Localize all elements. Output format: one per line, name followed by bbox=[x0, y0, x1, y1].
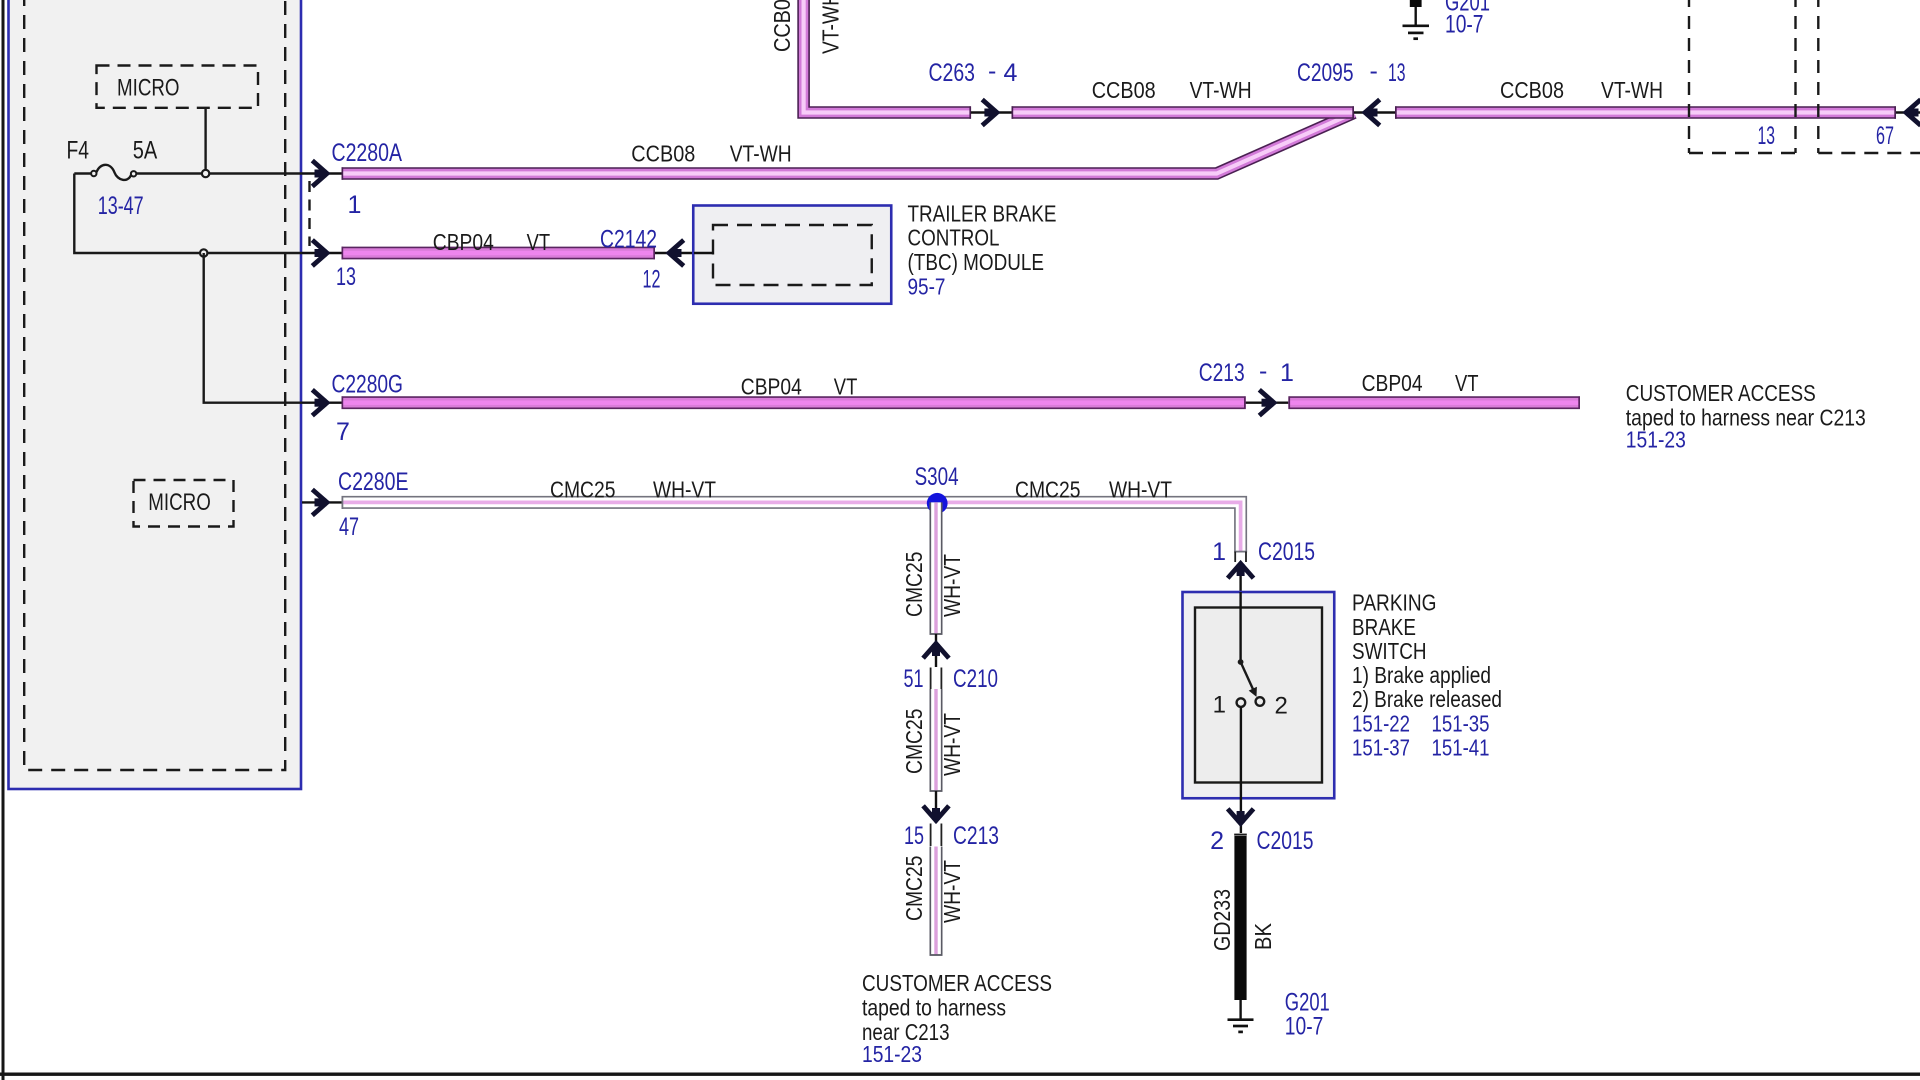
wire CCB08 VT-WH top vertical with corner to C263 bbox=[804, 0, 972, 119]
svg-text:BK: BK bbox=[1250, 922, 1276, 950]
label 51 / C210 bbox=[904, 665, 999, 693]
svg-text:CMC25: CMC25 bbox=[901, 856, 927, 922]
svg-text:S304: S304 bbox=[915, 463, 959, 491]
connector arrow C213 pin 1 bbox=[1259, 390, 1274, 416]
svg-text:-: - bbox=[1370, 57, 1378, 85]
svg-text:CUSTOMER ACCESS: CUSTOMER ACCESS bbox=[862, 970, 1052, 996]
connector arrow C2095 pin 13 bbox=[1365, 100, 1380, 126]
svg-text:(TBC) MODULE: (TBC) MODULE bbox=[908, 249, 1045, 275]
label pin 12 bbox=[643, 266, 661, 294]
wire lead at C2095 bbox=[1354, 111, 1395, 113]
connector arrow C2015 pin 2 (down) bbox=[1228, 809, 1254, 824]
PARKING BRAKE SWITCH inner box bbox=[1195, 608, 1322, 783]
svg-text:151-22: 151-22 bbox=[1352, 711, 1410, 737]
MICRO label box 2 bbox=[134, 480, 234, 527]
svg-text:51: 51 bbox=[904, 665, 924, 693]
TBC inner dashed boundary bbox=[713, 225, 872, 285]
CUSTOMER ACCESS note (right) bbox=[1626, 380, 1866, 453]
svg-text:151-23: 151-23 bbox=[1626, 427, 1686, 453]
wire lead at right edge bbox=[1896, 111, 1920, 113]
svg-text:95-7: 95-7 bbox=[908, 274, 946, 300]
wire lead through C213 arrow bbox=[935, 791, 937, 823]
label C2280G bbox=[332, 371, 404, 399]
label VT (row2) bbox=[527, 229, 551, 255]
svg-text:CMC25: CMC25 bbox=[550, 477, 616, 503]
connector arrow C2015 pin 1 (up) bbox=[1228, 564, 1254, 579]
svg-text:WH-VT: WH-VT bbox=[653, 477, 716, 503]
switch blade with arrowhead bbox=[1241, 662, 1257, 697]
BCM module box (grey, blue border) bbox=[9, 0, 302, 789]
connector arrow C2280G pin 7 bbox=[312, 390, 327, 416]
svg-text:C213: C213 bbox=[1199, 359, 1245, 387]
svg-text:7: 7 bbox=[336, 418, 350, 446]
connector arrow C2280A pin 13 bbox=[312, 240, 327, 266]
label C2095 - 13 bbox=[1297, 57, 1406, 87]
wire C2280A lead bbox=[302, 172, 342, 174]
label C2280A bbox=[332, 139, 403, 167]
switch terminal 2 bbox=[1256, 697, 1265, 706]
svg-text:C2015: C2015 bbox=[1258, 538, 1315, 566]
svg-text:10-7: 10-7 bbox=[1285, 1013, 1324, 1041]
label C263 - 4 bbox=[929, 57, 1018, 87]
connector arrow at right edge bbox=[1906, 100, 1920, 126]
wire lead inside TBC module bbox=[694, 252, 714, 254]
svg-text:MICRO: MICRO bbox=[117, 75, 180, 102]
label CBP04 (row3 left) bbox=[741, 373, 802, 399]
svg-text:13: 13 bbox=[1388, 59, 1406, 87]
svg-text:VT-WH: VT-WH bbox=[818, 0, 844, 54]
label WH-VT (rotated, segment C) bbox=[939, 860, 965, 923]
label G201 10-7 (top) bbox=[1445, 0, 1490, 39]
switch terminal 1 bbox=[1237, 698, 1246, 707]
ground G201 (top) bbox=[1403, 26, 1430, 39]
wire: MICRO1 to junction on wire1 bbox=[204, 108, 206, 174]
svg-text:5A: 5A bbox=[133, 137, 158, 165]
CUSTOMER ACCESS note (bottom) bbox=[862, 970, 1052, 1067]
label CMC25 (rotated, segment C) bbox=[901, 856, 927, 922]
svg-text:BRAKE: BRAKE bbox=[1352, 614, 1416, 640]
svg-text:F4: F4 bbox=[67, 137, 90, 165]
connector arrow C210 pin 51 (up) bbox=[923, 644, 949, 659]
connector arrow C263 pin 4 bbox=[982, 100, 997, 126]
svg-text:WH-VT: WH-VT bbox=[939, 554, 965, 617]
wire lead at C263 bbox=[971, 111, 1012, 113]
label VT-WH (mid) bbox=[1190, 77, 1252, 103]
svg-text:C2280G: C2280G bbox=[332, 371, 404, 399]
svg-text:C2095: C2095 bbox=[1297, 59, 1354, 87]
label 2 / C2015 bbox=[1210, 827, 1313, 855]
svg-text:WH-VT: WH-VT bbox=[939, 713, 965, 776]
switch pivot bbox=[1238, 659, 1244, 665]
svg-text:C2142: C2142 bbox=[600, 226, 657, 254]
label WH-VT (row4 left) bbox=[653, 477, 716, 503]
BCM inner dashed boundary bbox=[24, 0, 285, 770]
svg-text:151-37: 151-37 bbox=[1352, 735, 1410, 761]
label CCB08 (rotated, top) bbox=[769, 0, 795, 52]
label CCB08 (mid) bbox=[1092, 77, 1156, 103]
node: junction on wire1 bbox=[202, 170, 209, 177]
wire from terminal 1 down through C2015 arrow bbox=[1240, 707, 1242, 833]
wire CMC25 WH-VT row4 with corner down to C2015 bbox=[342, 496, 1248, 553]
svg-text:13: 13 bbox=[336, 263, 356, 291]
splice S304 bbox=[927, 493, 948, 514]
svg-text:1: 1 bbox=[1213, 692, 1226, 719]
svg-text:C2280A: C2280A bbox=[332, 139, 403, 167]
label VT-WH (rotated, top) bbox=[818, 0, 844, 54]
MICRO label box 1 bbox=[97, 66, 259, 108]
svg-text:151-23: 151-23 bbox=[862, 1041, 922, 1067]
svg-text:VT: VT bbox=[527, 229, 551, 255]
svg-text:2: 2 bbox=[1210, 827, 1224, 855]
svg-text:13-47: 13-47 bbox=[98, 192, 144, 220]
label VT (row3 left) bbox=[834, 373, 858, 399]
label G201 10-7 (bottom) bbox=[1285, 989, 1330, 1041]
wire CBP04 VT row3 left segment bbox=[342, 396, 1246, 409]
svg-text:C210: C210 bbox=[953, 665, 998, 693]
label C2280E bbox=[338, 468, 409, 496]
label CCB08 (right) bbox=[1500, 77, 1564, 103]
label C213 - 1 bbox=[1199, 357, 1294, 387]
PARKING BRAKE SWITCH text bbox=[1352, 590, 1502, 761]
svg-text:CMC25: CMC25 bbox=[1015, 477, 1081, 503]
label VT-WH (right) bbox=[1601, 77, 1663, 103]
svg-text:TRAILER BRAKE: TRAILER BRAKE bbox=[908, 200, 1057, 226]
label CMC25 (row4 right) bbox=[1015, 477, 1081, 503]
node: junction on wire2 bbox=[200, 249, 207, 256]
svg-text:67: 67 bbox=[1876, 122, 1894, 150]
wire CBP04 VT row3 right segment bbox=[1288, 396, 1580, 409]
svg-text:GD233: GD233 bbox=[1209, 889, 1235, 951]
svg-text:CMC25: CMC25 bbox=[901, 709, 927, 775]
label pin 47 bbox=[339, 513, 359, 541]
label CMC25 (rotated, segment A) bbox=[901, 552, 927, 618]
label VT-WH (row1) bbox=[730, 140, 792, 166]
svg-text:PARKING: PARKING bbox=[1352, 590, 1437, 616]
svg-text:47: 47 bbox=[339, 513, 359, 541]
wire lead through C2015 arrow into switch bbox=[1239, 562, 1241, 662]
svg-text:-: - bbox=[1259, 357, 1267, 385]
connector C213 wire ticks bbox=[931, 824, 942, 847]
wire CBP04 VT row2 bbox=[342, 247, 656, 260]
label CCB08 (row1) bbox=[631, 140, 695, 166]
connector arrow C2142 pin 12 bbox=[669, 240, 684, 266]
wire C2142 lead bbox=[302, 252, 342, 254]
svg-text:CCB08: CCB08 bbox=[1500, 77, 1564, 103]
connector C2015 wire ticks (pin 1) bbox=[1235, 552, 1246, 563]
wire C2280A CCB08 VT-WH with riser to C2095 bbox=[342, 113, 1355, 180]
label WH-VT (row4 right) bbox=[1109, 477, 1172, 503]
wire C2280E lead bbox=[302, 501, 342, 503]
PARKING BRAKE SWITCH box bbox=[1183, 592, 1335, 798]
svg-text:VT-WH: VT-WH bbox=[730, 140, 792, 166]
connector housing dashed box pin 67 (top right) bbox=[1818, 0, 1920, 153]
svg-text:C2280E: C2280E bbox=[338, 468, 409, 496]
TBC module box bbox=[693, 206, 891, 304]
wire C2280G lead bbox=[302, 402, 342, 404]
wire lead through C210 arrow bbox=[935, 634, 937, 667]
connector arrow C2280A pin 1 bbox=[312, 161, 327, 187]
wire lead at C213 bbox=[1246, 402, 1289, 404]
svg-text:CONTROL: CONTROL bbox=[908, 225, 1000, 251]
label CMC25 (row4 left) bbox=[550, 477, 616, 503]
connector arrow C213 pin 15 (down) bbox=[923, 806, 949, 821]
wire CCB08 VT-WH between C263 and C2095 bbox=[1012, 106, 1355, 119]
wire: fuse left leg down to row2 bbox=[74, 174, 302, 254]
connector arrow C2280E pin 47 bbox=[312, 490, 327, 516]
wire lead from TBC to C2142 arrow bbox=[655, 252, 713, 254]
svg-text:SWITCH: SWITCH bbox=[1352, 638, 1427, 664]
svg-text:2) Brake released: 2) Brake released bbox=[1352, 686, 1502, 712]
connector C2280A dashed housing line bbox=[308, 181, 310, 246]
svg-text:CCB08: CCB08 bbox=[769, 0, 795, 52]
label WH-VT (rotated, segment A) bbox=[939, 554, 965, 617]
svg-text:CBP04: CBP04 bbox=[433, 229, 494, 255]
svg-text:C263: C263 bbox=[929, 59, 976, 87]
label CBP04 (row2) bbox=[433, 229, 494, 255]
svg-text:CCB08: CCB08 bbox=[1092, 77, 1156, 103]
svg-text:10-7: 10-7 bbox=[1445, 11, 1484, 39]
svg-text:1) Brake applied: 1) Brake applied bbox=[1352, 662, 1491, 688]
svg-text:CBP04: CBP04 bbox=[741, 373, 802, 399]
label WH-VT (rotated, segment B) bbox=[939, 713, 965, 776]
svg-text:taped to harness: taped to harness bbox=[862, 995, 1006, 1021]
label pin 1 bbox=[348, 191, 362, 219]
svg-text:151-35: 151-35 bbox=[1432, 711, 1490, 737]
svg-text:VT-WH: VT-WH bbox=[1601, 77, 1663, 103]
connector C210 wire ticks bbox=[931, 668, 942, 690]
label pin 7 bbox=[336, 418, 350, 446]
svg-text:CCB08: CCB08 bbox=[631, 140, 695, 166]
svg-text:4: 4 bbox=[1004, 59, 1018, 87]
label C2142 bbox=[600, 226, 657, 254]
label pin 13 bbox=[336, 263, 356, 291]
label 15 / C213 bbox=[904, 822, 999, 850]
svg-text:13: 13 bbox=[1758, 122, 1776, 150]
label CMC25 (rotated, segment B) bbox=[901, 709, 927, 775]
wire CMC25 WH-VT vertical segment A below S304 bbox=[930, 502, 943, 634]
svg-text:WH-VT: WH-VT bbox=[1109, 477, 1172, 503]
ground G201 (bottom) bbox=[1228, 1020, 1254, 1032]
connector housing dashed box pin 13 (top right) bbox=[1689, 0, 1796, 153]
svg-text:1: 1 bbox=[348, 191, 362, 219]
svg-text:WH-VT: WH-VT bbox=[939, 860, 965, 923]
svg-text:VT: VT bbox=[1455, 370, 1479, 396]
svg-text:12: 12 bbox=[643, 266, 661, 294]
svg-text:1: 1 bbox=[1212, 538, 1226, 566]
label terminal 2 bbox=[1275, 693, 1288, 720]
page bottom border bbox=[0, 1073, 1920, 1076]
svg-text:C2015: C2015 bbox=[1257, 827, 1314, 855]
svg-text:CMC25: CMC25 bbox=[901, 552, 927, 618]
label BK (rotated) bbox=[1250, 922, 1276, 950]
wire CMC25 WH-VT vertical segment C bbox=[930, 847, 943, 956]
label CBP04 (row3 right) bbox=[1362, 370, 1423, 396]
svg-text:151-41: 151-41 bbox=[1432, 735, 1490, 761]
label GD233 (rotated) bbox=[1209, 889, 1235, 951]
TRAILER BRAKE CONTROL (TBC) MODULE text bbox=[908, 200, 1057, 299]
page left border bbox=[2, 0, 5, 1080]
svg-text:CBP04: CBP04 bbox=[1362, 370, 1423, 396]
wire CCB08 VT-WH from C2095 to right edge bbox=[1395, 106, 1896, 119]
svg-text:15: 15 bbox=[904, 822, 924, 850]
svg-text:VT: VT bbox=[834, 373, 858, 399]
wire: branch down to row3 bbox=[204, 253, 302, 403]
svg-text:1: 1 bbox=[1280, 359, 1294, 387]
fuse F4 5A bbox=[67, 137, 303, 221]
wire CMC25 WH-VT vertical segment B bbox=[930, 689, 943, 792]
wire lead to ground G201 bbox=[1239, 1000, 1241, 1019]
wire GD233 BK end cap bbox=[1234, 834, 1247, 836]
wire lead inside switch box to pivot bbox=[1239, 592, 1241, 662]
label terminal 1 bbox=[1213, 692, 1226, 719]
svg-text:C213: C213 bbox=[953, 822, 999, 850]
svg-text:CUSTOMER ACCESS: CUSTOMER ACCESS bbox=[1626, 380, 1816, 406]
svg-text:-: - bbox=[988, 57, 996, 85]
svg-text:MICRO: MICRO bbox=[148, 489, 211, 516]
svg-text:2: 2 bbox=[1275, 693, 1288, 720]
svg-text:VT-WH: VT-WH bbox=[1190, 77, 1252, 103]
label 1 / C2015 bbox=[1212, 538, 1315, 566]
wire GD233 BK (thick black) bbox=[1234, 836, 1246, 1000]
label S304 bbox=[915, 463, 959, 491]
label VT (row3 right) bbox=[1455, 370, 1479, 396]
wire stub to ground G201 (top) bbox=[1410, 0, 1422, 25]
